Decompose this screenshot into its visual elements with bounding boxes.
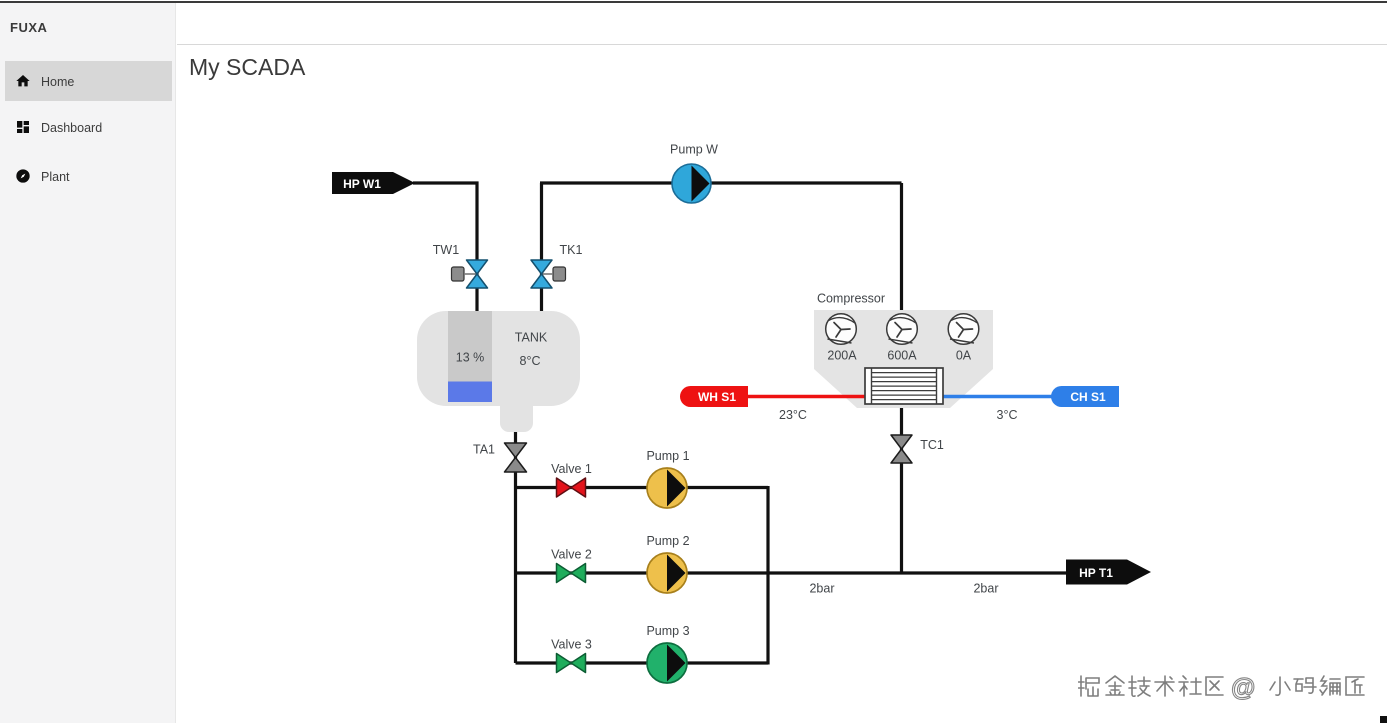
wire from HP W1 flag down to tank — [413, 183, 477, 313]
pump Pump W — [672, 164, 711, 203]
page title My SCADA — [189, 54, 305, 81]
label TC1 — [920, 438, 944, 452]
label TANK — [515, 331, 548, 345]
tank body — [417, 311, 580, 432]
valve Valve 3 — [557, 654, 586, 673]
svg-text:@: @ — [1231, 674, 1255, 702]
valve Valve 1 — [557, 478, 586, 497]
wire row 1 — [516, 486, 769, 489]
label Compressor — [817, 292, 885, 306]
svg-text:CH S1: CH S1 — [1070, 390, 1106, 404]
label 600A — [887, 349, 917, 363]
pump Pump 2 — [647, 553, 687, 593]
label 0A — [956, 349, 972, 363]
svg-text:TA1: TA1 — [473, 443, 495, 457]
hot water line WH S1 — [746, 395, 866, 399]
flag HP T1 — [1066, 560, 1151, 585]
svg-text:TC1: TC1 — [920, 438, 944, 452]
value label 2bar left — [809, 582, 834, 596]
svg-text:0A: 0A — [956, 349, 972, 363]
svg-text:TK1: TK1 — [560, 243, 583, 257]
svg-text:2bar: 2bar — [973, 582, 998, 596]
label Pump W — [670, 143, 718, 157]
valve TW1 — [452, 260, 488, 288]
label 13 % — [456, 351, 485, 365]
label 8°C — [520, 354, 541, 368]
sidebar — [0, 3, 176, 723]
tank level gauge — [448, 311, 492, 402]
wire pump riser right — [766, 486, 769, 665]
cold water line CH S1 — [942, 395, 1053, 399]
pump Pump 1 — [647, 468, 687, 508]
compressor body — [814, 310, 993, 408]
label Valve 1 — [551, 462, 592, 476]
fan F1 — [826, 314, 857, 345]
label Pump 2 — [646, 534, 689, 548]
watermark 掘金技术社区 @ 小码编匠 — [1078, 673, 1374, 703]
svg-text:Valve 1: Valve 1 — [551, 462, 592, 476]
wire top horizontal through Pump W — [540, 181, 902, 184]
svg-text:HP W1: HP W1 — [343, 177, 381, 191]
svg-text:23°C: 23°C — [779, 408, 807, 422]
fan F3 — [948, 314, 979, 345]
top window border line — [0, 1, 1387, 3]
menu item Dashboard — [5, 107, 172, 147]
svg-text:Pump W: Pump W — [670, 143, 718, 157]
svg-text:2bar: 2bar — [809, 582, 834, 596]
menu item Home (active) — [5, 61, 172, 101]
svg-text:Valve 2: Valve 2 — [551, 548, 592, 562]
@ sign — [1231, 674, 1255, 702]
svg-text:HP T1: HP T1 — [1079, 566, 1113, 580]
tag WH S1 — [680, 386, 748, 407]
wire tank outlet down through TA1 to row 3 — [514, 428, 517, 663]
value label 2bar right — [973, 582, 998, 596]
corner mark — [1380, 716, 1387, 723]
wire row 3 — [516, 661, 769, 664]
FUXA logo text — [10, 20, 47, 35]
label TK1 — [560, 243, 583, 257]
valve Valve 2 — [557, 564, 586, 583]
wire from tank up through TK1 — [540, 183, 543, 313]
wire row 2 to HP T1 — [516, 571, 1069, 574]
label 200A — [827, 349, 857, 363]
menu item Plant — [5, 156, 172, 196]
tag CH S1 — [1051, 386, 1119, 407]
value label 23°C — [779, 408, 807, 422]
label Valve 2 — [551, 548, 592, 562]
valve TK1 — [531, 260, 566, 288]
svg-text:Pump 1: Pump 1 — [646, 449, 689, 463]
flag HP W1 — [332, 172, 415, 194]
svg-text:Pump 2: Pump 2 — [646, 534, 689, 548]
label Valve 3 — [551, 638, 592, 652]
svg-text:TW1: TW1 — [433, 243, 459, 257]
pump Pump 3 — [647, 643, 687, 683]
valve TC1 — [891, 435, 912, 463]
svg-text:WH S1: WH S1 — [698, 390, 736, 404]
heat exchanger — [865, 368, 943, 404]
svg-text:600A: 600A — [887, 349, 917, 363]
svg-text:Compressor: Compressor — [817, 292, 885, 306]
fan F2 — [887, 314, 918, 345]
label Pump 3 — [646, 624, 689, 638]
svg-text:8°C: 8°C — [520, 354, 541, 368]
label Pump 1 — [646, 449, 689, 463]
header separator line — [177, 44, 1387, 45]
svg-text:13 %: 13 % — [456, 351, 485, 365]
value label 3°C — [997, 408, 1018, 422]
svg-text:Valve 3: Valve 3 — [551, 638, 592, 652]
svg-text:200A: 200A — [827, 349, 857, 363]
label TA1 — [473, 443, 495, 457]
wire right riser from top line down through compressor and TC1 to row 2 — [900, 183, 903, 573]
svg-text:Pump 3: Pump 3 — [646, 624, 689, 638]
valve TA1 — [505, 443, 527, 472]
label TW1 — [433, 243, 459, 257]
svg-text:TANK: TANK — [515, 331, 548, 345]
svg-text:3°C: 3°C — [997, 408, 1018, 422]
